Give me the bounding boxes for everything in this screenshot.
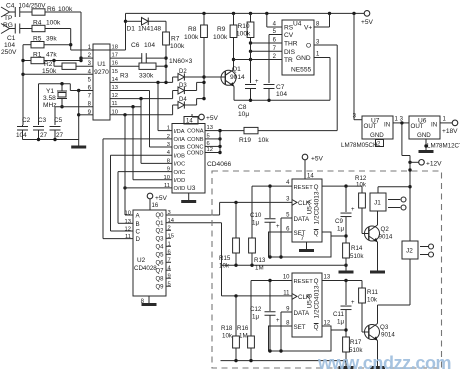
svg-text:1μ: 1μ [252,220,259,227]
svg-text:LM78M05CH: LM78M05CH [341,142,377,149]
svg-text:OUT: OUT [364,123,377,130]
svg-text:+18V: +18V [442,128,458,135]
svg-text:+5V: +5V [155,195,168,202]
svg-text:O: O [306,43,311,50]
svg-text:DIS: DIS [284,49,296,56]
svg-text:100k: 100k [46,20,61,27]
svg-text:13: 13 [324,275,331,281]
svg-text:www.cndzz.com: www.cndzz.com [317,353,451,373]
svg-text:+: + [351,207,355,213]
svg-text:THR: THR [284,41,298,48]
svg-text:10k: 10k [222,333,233,340]
svg-text:+12V: +12V [426,161,442,168]
svg-text:C8: C8 [238,104,247,111]
svg-text:Q5: Q5 [155,253,164,259]
svg-text:Q0: Q0 [155,213,164,219]
svg-text:Q2: Q2 [155,229,164,235]
svg-text:C6: C6 [131,42,140,49]
svg-text:C11: C11 [333,311,344,318]
svg-text:O/ID: O/ID [174,186,186,192]
svg-text:+: + [276,224,280,230]
svg-text:39k: 39k [46,36,57,43]
svg-text:10k: 10k [219,263,230,270]
svg-text:U4: U4 [293,21,302,28]
svg-text:CONB: CONB [187,137,204,143]
svg-text:104: 104 [4,42,15,49]
svg-text:27: 27 [56,132,64,139]
svg-text:CD4028: CD4028 [134,265,157,272]
svg-text:D: D [136,236,141,243]
svg-text:R8: R8 [188,26,197,33]
svg-text:Q4: Q4 [155,245,164,251]
svg-text:100k: 100k [184,34,199,41]
svg-text:510k: 510k [350,253,364,260]
svg-text:C9: C9 [335,218,343,225]
svg-text:9014: 9014 [230,74,245,81]
svg-text:Q3: Q3 [155,237,164,243]
svg-text:100k: 100k [170,43,185,50]
svg-text:330k: 330k [139,73,154,80]
svg-text:R7: R7 [171,36,180,43]
svg-text:10k: 10k [367,297,378,304]
svg-text:16: 16 [152,203,159,209]
svg-text:+: + [276,318,280,324]
svg-text:104: 104 [16,132,27,139]
svg-text:O/IC: O/IC [174,170,186,176]
svg-text:R6: R6 [47,6,56,13]
svg-text:C7: C7 [276,84,285,91]
svg-text:6: 6 [168,250,171,256]
svg-text:+5V: +5V [206,115,219,122]
svg-text:R9: R9 [217,26,226,33]
svg-text:15: 15 [168,234,174,240]
svg-text:U3: U3 [187,185,196,192]
svg-text:TR: TR [284,57,293,64]
svg-text:9270: 9270 [94,69,109,76]
svg-text:Q1: Q1 [232,66,241,73]
svg-text:250V: 250V [1,49,17,56]
svg-text:R18: R18 [221,325,233,332]
svg-text:1/2CD4013: 1/2CD4013 [314,285,321,318]
svg-text:10k: 10k [258,137,269,144]
svg-text:7: 7 [168,258,171,264]
svg-text:V+: V+ [304,25,312,32]
svg-text:J1: J1 [374,200,381,207]
svg-text:Q: Q [314,324,319,331]
svg-text:O/IA: O/IA [174,137,186,143]
svg-text:I/OD: I/OD [174,178,186,184]
svg-text:R19: R19 [239,137,251,144]
svg-text:CONA: CONA [187,129,204,135]
svg-text:+: + [255,79,259,85]
svg-text:COND: COND [187,151,204,157]
svg-text:C4: C4 [6,3,15,10]
svg-text:100k: 100k [213,34,228,41]
svg-text:Q6: Q6 [155,261,164,267]
svg-text:RESET: RESET [294,279,314,285]
svg-text:1M: 1M [239,333,248,340]
svg-text:U1: U1 [97,61,106,68]
svg-text:R11: R11 [367,289,378,296]
svg-text:B: B [136,221,140,228]
svg-text:OUT: OUT [411,123,424,130]
svg-text:D1: D1 [127,26,136,33]
svg-text:9: 9 [168,273,171,279]
svg-text:10μ: 10μ [238,111,249,118]
svg-text:IN: IN [431,122,437,129]
svg-text:CD4066: CD4066 [207,161,232,168]
svg-text:47k: 47k [46,52,57,59]
svg-text:DATA: DATA [294,310,310,317]
svg-text:13: 13 [125,219,131,225]
svg-text:C3: C3 [38,117,47,124]
svg-text:9014: 9014 [381,332,395,339]
svg-text:9014: 9014 [379,234,393,241]
svg-text:1/2CD4013: 1/2CD4013 [314,191,321,224]
svg-text:RS: RS [284,25,294,32]
svg-text:J2: J2 [406,248,413,255]
svg-text:D2: D2 [179,69,187,75]
svg-text:C2: C2 [22,117,31,124]
svg-text:R17: R17 [350,339,362,346]
svg-text:Q2: Q2 [381,226,390,233]
svg-text:NE555: NE555 [291,67,311,74]
svg-text:1μ: 1μ [337,319,344,326]
svg-text:1μ: 1μ [252,314,259,321]
svg-text:1N4148: 1N4148 [138,26,161,33]
svg-text:C1: C1 [7,35,16,42]
svg-text:D4: D4 [179,97,187,103]
svg-text:SET: SET [294,324,306,331]
svg-text:R3: R3 [120,73,129,80]
svg-text:I/OB: I/OB [174,153,186,159]
svg-text:CV: CV [284,32,294,39]
svg-text:Q7: Q7 [155,268,164,274]
svg-text:RESET: RESET [294,185,314,191]
svg-text:1N60×3: 1N60×3 [169,58,193,65]
svg-text:R4: R4 [33,20,42,27]
svg-text:LM78M12CT: LM78M12CT [427,143,460,150]
svg-text:GND: GND [370,132,384,139]
svg-text:R15: R15 [219,255,231,262]
svg-text:Q3: Q3 [380,324,389,331]
svg-text:Y1: Y1 [46,88,54,95]
svg-text:U5-B: U5-B [307,294,314,309]
svg-text:GND: GND [417,132,431,139]
svg-text:14: 14 [186,119,193,125]
svg-text:+5V: +5V [311,156,324,163]
svg-text:I/DA: I/DA [174,129,185,135]
svg-text:U2: U2 [137,257,146,264]
svg-text:C12: C12 [250,306,262,313]
svg-text:IN: IN [384,122,390,129]
svg-text:CONC: CONC [187,144,204,150]
svg-text:15: 15 [112,69,118,75]
svg-text:R10: R10 [238,23,250,30]
svg-text:104: 104 [276,91,287,98]
svg-text:TP: TP [4,15,13,22]
svg-text:10: 10 [125,211,131,217]
svg-text:RG: RG [3,22,13,29]
svg-text:Q1: Q1 [155,221,164,227]
svg-text:27: 27 [40,132,48,139]
svg-text:R14: R14 [351,245,363,252]
svg-text:Q8: Q8 [155,276,164,282]
svg-text:1: 1 [168,242,171,248]
svg-text:DATA: DATA [294,216,310,223]
svg-text:R13: R13 [254,257,266,264]
svg-text:R16: R16 [237,325,249,332]
svg-text:Q: Q [314,230,319,237]
svg-text:10k: 10k [356,182,367,189]
svg-text:C: C [136,229,141,236]
svg-text:104: 104 [144,42,155,49]
svg-text:11: 11 [125,234,131,240]
svg-text:100k: 100k [58,6,73,13]
svg-text:GND: GND [296,55,311,62]
svg-text:C10: C10 [250,212,262,219]
svg-text:+5V: +5V [361,19,374,26]
svg-text:3: 3 [168,210,171,216]
svg-text:Q: Q [314,278,319,285]
svg-text:Q9: Q9 [155,284,164,290]
svg-text:+: + [351,300,355,306]
svg-text:12: 12 [125,227,131,233]
svg-text:10: 10 [283,275,290,281]
svg-text:5: 5 [168,281,171,287]
svg-text:D3: D3 [179,83,187,89]
svg-text:O/IB: O/IB [174,145,186,151]
svg-text:2: 2 [168,226,171,232]
svg-text:I/OC: I/OC [174,162,186,168]
svg-text:1μ: 1μ [337,226,344,233]
svg-text:14: 14 [307,174,314,180]
svg-text:3.58: 3.58 [43,95,56,102]
svg-text:100k: 100k [236,31,251,38]
svg-text:R2: R2 [44,61,53,68]
svg-text:U5-A: U5-A [307,199,314,214]
svg-text:Q: Q [314,184,319,191]
